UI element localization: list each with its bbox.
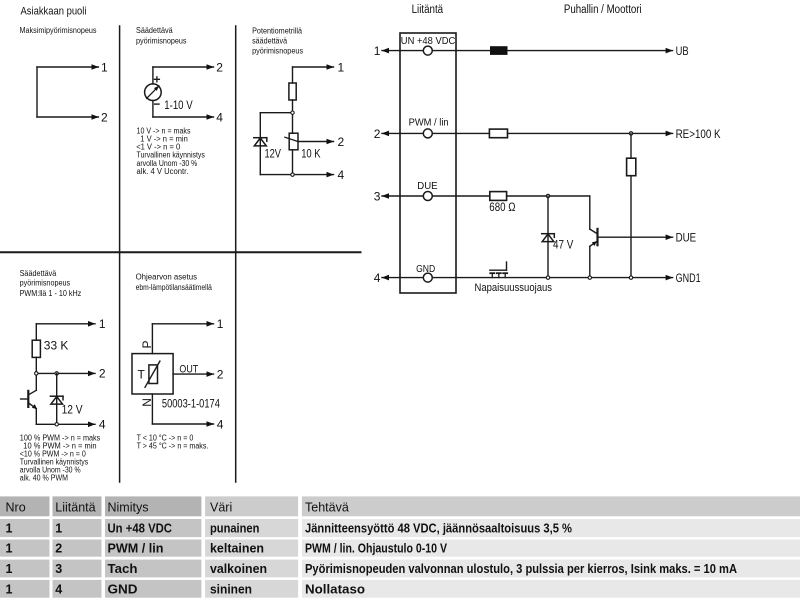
wire row3 to resistor	[432, 195, 490, 197]
wire cell5 top to terminal 1	[152, 323, 213, 325]
svg-text:1: 1	[217, 317, 224, 331]
wire emitter down	[35, 409, 37, 425]
svg-text:PWM:llä 1 - 10 kHz: PWM:llä 1 - 10 kHz	[20, 289, 82, 298]
svg-text:4: 4	[217, 417, 224, 431]
zener branch vertical lower	[56, 404, 58, 424]
svg-text:valkoinen: valkoinen	[210, 562, 267, 576]
wire cell3 vertical upper	[292, 67, 294, 83]
svg-text:1: 1	[6, 542, 13, 556]
wire row1 to fuse	[432, 50, 490, 52]
wire cell1 bottom to terminal 2	[37, 116, 98, 118]
wire base to DUE	[598, 236, 673, 238]
grid divider vertical 2	[235, 26, 237, 482]
minus sign	[155, 103, 159, 105]
svg-text:4: 4	[216, 110, 223, 124]
svg-text:Asiakkaan puoli: Asiakkaan puoli	[21, 5, 87, 17]
grid divider horizontal	[0, 251, 361, 253]
svg-text:PWM / lin: PWM / lin	[409, 117, 449, 129]
wire cell4 top to terminal 1	[36, 323, 95, 325]
svg-text:10 K: 10 K	[301, 147, 320, 161]
wire row3 to transistor	[507, 195, 590, 197]
junction node row4 resistor	[629, 276, 632, 279]
svg-text:Liitäntä: Liitäntä	[412, 4, 444, 16]
wire cell5 vertical P	[151, 324, 153, 354]
wire row4 GND line	[432, 277, 672, 279]
terminal 3 circle	[423, 192, 432, 201]
svg-text:33 K: 33 K	[44, 339, 69, 353]
svg-text:2: 2	[99, 367, 106, 381]
svg-text:pyörimisnopeus: pyörimisnopeus	[252, 47, 303, 56]
potentiometer wiper	[285, 137, 298, 141]
table header row background	[0, 496, 800, 597]
resistor RE vertical	[627, 158, 636, 176]
wire zener branch upper	[547, 196, 549, 242]
wire cell2 top to terminal 2	[153, 66, 214, 68]
wire junction row to terminal 2	[36, 372, 95, 374]
wire cell2 bottom to terminal 4	[153, 116, 214, 118]
svg-text:N: N	[140, 398, 154, 407]
svg-text:Puhallin / Moottori: Puhallin / Moottori	[564, 4, 642, 16]
svg-text:DUE: DUE	[417, 180, 437, 192]
wire cell4 vertical upper	[35, 324, 37, 340]
svg-text:1: 1	[374, 44, 381, 58]
svg-text:4: 4	[338, 168, 345, 182]
svg-text:P: P	[140, 340, 154, 348]
wire OUT to terminal 2	[173, 373, 213, 375]
zener diode ZD 47 V	[542, 234, 555, 242]
svg-text:UB: UB	[676, 44, 689, 58]
svg-text:Potentiometrillä: Potentiometrillä	[252, 26, 302, 35]
wire resistor RE down to GND line	[630, 176, 632, 278]
svg-text:Liitäntä: Liitäntä	[55, 501, 95, 515]
svg-text:2: 2	[217, 367, 224, 381]
svg-text:Nimitys: Nimitys	[108, 501, 149, 515]
wire pot to bottom	[292, 150, 294, 175]
svg-text:12V: 12V	[265, 147, 282, 161]
svg-text:säädettävä: säädettävä	[252, 36, 287, 45]
junction node row4 zener	[546, 276, 549, 279]
svg-text:680 Ω: 680 Ω	[489, 200, 515, 214]
svg-text:Napaisuussuojaus: Napaisuussuojaus	[475, 282, 553, 294]
svg-text:4: 4	[374, 271, 381, 285]
svg-text:ebm-lämpötilansäätimellä: ebm-lämpötilansäätimellä	[136, 283, 213, 292]
pin 2 arrow left	[382, 132, 423, 134]
table header text	[6, 501, 349, 515]
wire row2 to RE	[508, 132, 673, 134]
svg-text:GND1: GND1	[676, 271, 701, 285]
junction node cell4 bottom	[55, 423, 58, 426]
resistor R 33K	[32, 340, 40, 357]
wire cell1 top to terminal 1	[37, 66, 98, 68]
pin 4 arrow left	[382, 277, 423, 279]
svg-text:UN +48 VDC: UN +48 VDC	[401, 35, 456, 47]
table row 4 background	[0, 580, 50, 598]
svg-text:Maksimipyörimisnopeus: Maksimipyörimisnopeus	[20, 26, 97, 35]
cell4 header Saadettava pyorimisnopeus PWM	[20, 269, 82, 298]
cell3 header Potentiometrilla saadettava pyorimisnopeus	[252, 26, 303, 55]
wire wiper to terminal 2	[298, 141, 334, 143]
wire cell3 to terminal 1	[293, 66, 334, 68]
svg-text:3: 3	[374, 189, 381, 203]
terminal 2 circle	[423, 129, 432, 138]
resistor R-cell3	[289, 83, 296, 100]
wire row2 to resistor	[432, 132, 489, 134]
svg-text:2: 2	[55, 542, 62, 556]
table row 2 background	[0, 540, 50, 557]
svg-text:punainen: punainen	[210, 522, 259, 536]
potentiometer P1 10K body	[289, 133, 298, 150]
connector box U2	[400, 33, 456, 293]
wire cell1 vertical	[36, 67, 38, 117]
svg-text:T: T	[138, 368, 146, 382]
wire cell3 bottom to terminal 4	[260, 174, 333, 176]
resistor row2	[489, 129, 507, 138]
svg-text:Väri: Väri	[210, 501, 232, 515]
wire left branch down to zener	[259, 113, 261, 146]
svg-text:1: 1	[99, 317, 106, 331]
svg-text:T > 45 °C -> n = maks.: T > 45 °C -> n = maks.	[137, 441, 209, 450]
svg-text:Tach: Tach	[108, 562, 138, 576]
svg-text:RE>100 K: RE>100 K	[676, 127, 721, 141]
wire resistor to collector	[35, 357, 37, 390]
terminal 1 circle	[423, 46, 432, 55]
junction node cell4 left	[35, 372, 38, 375]
svg-text:47 V: 47 V	[553, 238, 573, 252]
terminal 4 circle	[423, 273, 432, 282]
junction node row3	[546, 194, 549, 197]
controller U1 box	[132, 354, 173, 394]
svg-text:DUE: DUE	[676, 231, 697, 245]
junction node cell3 lower	[291, 173, 294, 176]
svg-text:PWM / lin: PWM / lin	[108, 542, 164, 556]
junction node cell3 upper	[291, 111, 294, 114]
svg-text:keltainen: keltainen	[210, 542, 264, 556]
svg-text:2: 2	[101, 110, 108, 124]
wire cell2 vertical lower	[152, 101, 154, 118]
table row 4 text	[6, 582, 366, 596]
mosfet polarity protection	[490, 262, 507, 278]
junction node row2	[629, 132, 632, 135]
svg-text:Jännitteensyöttö 48 VDC, jäänn: Jännitteensyöttö 48 VDC, jäännösaaltoisu…	[305, 522, 572, 536]
svg-text:3: 3	[55, 562, 62, 576]
thermistor strike line	[145, 361, 160, 387]
junction node row4 emitter	[588, 276, 591, 279]
ferrite bead row1	[490, 46, 508, 55]
cell5 header Ohjearvon asetus	[136, 273, 213, 293]
wire zener to bottom	[259, 146, 261, 175]
svg-text:2: 2	[374, 127, 381, 141]
svg-text:sininen: sininen	[210, 582, 252, 596]
resistor 680 ohm	[490, 192, 507, 201]
voltage source V1 arrow	[147, 86, 159, 99]
wire junction down to resistor RE	[630, 133, 632, 158]
svg-text:12 V: 12 V	[62, 403, 83, 417]
wire row1 to UB	[508, 50, 673, 52]
table row 1 text	[6, 522, 573, 536]
transistor Q1	[21, 390, 37, 409]
zener diode ZD 12 V	[50, 396, 63, 404]
svg-text:Ohjearvon asetus: Ohjearvon asetus	[136, 273, 197, 282]
zener branch vertical upper	[56, 373, 58, 404]
cell5 annotation block	[137, 433, 209, 450]
transistor Q2	[590, 229, 598, 246]
svg-text:2: 2	[216, 60, 223, 74]
svg-text:50003-1-0174: 50003-1-0174	[162, 396, 220, 410]
table row 3 background	[0, 560, 50, 578]
plus sign	[154, 77, 159, 82]
svg-text:pyörimisnopeus: pyörimisnopeus	[136, 36, 187, 45]
wire cell4 bottom to terminal 4	[36, 423, 95, 425]
cell2 annotation block	[136, 126, 205, 176]
cell4 annotation block	[20, 433, 101, 482]
grid divider vertical 1	[119, 26, 121, 482]
junction node cell4 zener top	[55, 372, 58, 375]
thermistor body	[149, 365, 158, 384]
table row 3 text	[6, 562, 738, 576]
svg-text:Pyörimisnopeuden valvonnan ulo: Pyörimisnopeuden valvonnan ulostulo, 3 p…	[305, 562, 737, 576]
svg-text:alk. 4 V Ucontr.: alk. 4 V Ucontr.	[137, 167, 189, 176]
svg-text:1: 1	[6, 582, 13, 596]
wire zener branch lower	[547, 242, 549, 278]
wire collector vertical	[589, 196, 591, 229]
svg-text:alk. 40 % PWM: alk. 40 % PWM	[20, 473, 68, 482]
svg-text:1: 1	[6, 522, 13, 536]
wire cell2 vertical upper	[152, 67, 154, 84]
wire resistor to junction	[292, 100, 294, 133]
svg-text:4: 4	[99, 418, 106, 432]
svg-text:Säädettävä: Säädettävä	[20, 269, 57, 278]
svg-text:1: 1	[6, 562, 13, 576]
svg-text:Tehtävä: Tehtävä	[305, 501, 349, 515]
svg-text:GND: GND	[108, 582, 138, 596]
svg-text:PWM / lin. Ohjaustulo 0-10 V: PWM / lin. Ohjaustulo 0-10 V	[305, 542, 448, 556]
wire emitter down	[589, 246, 591, 277]
svg-text:2: 2	[338, 135, 345, 149]
pin 3 arrow left	[382, 195, 423, 197]
wire cell5 bottom to terminal 4	[152, 423, 213, 425]
pin 1 arrow left	[382, 50, 423, 52]
svg-text:Säädettävä: Säädettävä	[136, 26, 173, 35]
voltage source V1 circle	[145, 84, 162, 101]
svg-text:1: 1	[101, 60, 108, 74]
svg-text:Nollataso: Nollataso	[305, 582, 365, 596]
table row 2 text	[6, 542, 448, 556]
svg-text:Nro: Nro	[6, 501, 26, 515]
svg-text:pyörimisnopeus: pyörimisnopeus	[20, 278, 71, 287]
zener diode ZD 12V	[254, 138, 267, 146]
svg-text:4: 4	[55, 582, 62, 596]
table row 1 background	[0, 519, 50, 537]
svg-text:Un +48 VDC: Un +48 VDC	[108, 522, 173, 536]
svg-text:1: 1	[338, 60, 345, 74]
svg-text:1: 1	[55, 522, 62, 536]
svg-text:1-10 V: 1-10 V	[164, 98, 192, 112]
wire junction to left branch	[260, 112, 292, 114]
wire cell5 vertical N	[151, 394, 153, 424]
